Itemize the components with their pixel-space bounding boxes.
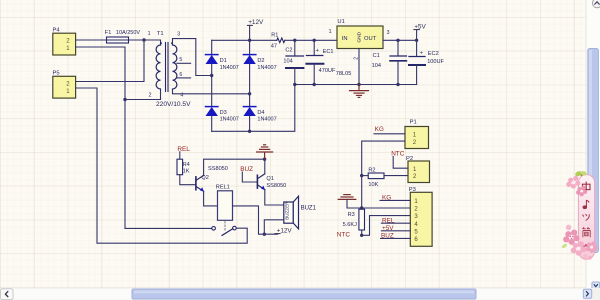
svg-text:REL1: REL1 xyxy=(216,185,230,191)
junction C2 top xyxy=(293,39,296,42)
svg-text:D1: D1 xyxy=(220,58,227,64)
svg-text:10K: 10K xyxy=(368,182,378,188)
svg-text:1: 1 xyxy=(329,29,332,35)
junction NTC node xyxy=(360,234,363,237)
wire D4 anode to bottom rail xyxy=(249,116,251,131)
ground symbol under U1 xyxy=(350,85,369,98)
connector P5 xyxy=(53,71,76,99)
flower cluster bottom xyxy=(561,225,598,260)
svg-text:T1: T1 xyxy=(157,31,164,37)
junction AC node left xyxy=(210,74,213,77)
wire U1 GND stem xyxy=(358,49,360,85)
svg-text:2: 2 xyxy=(149,93,152,99)
diode D3 1N4007 xyxy=(206,107,239,123)
wire relay coil right to +12V rail xyxy=(233,206,278,234)
connector P2 xyxy=(406,156,430,183)
wire T1 pin5 stub xyxy=(177,62,191,64)
wire BUZ label to Q1 base xyxy=(242,172,256,182)
wire Q1 emitter to buzzer top terminal xyxy=(265,190,284,205)
wire P1 pin2 to sense trunk xyxy=(362,141,405,209)
svg-text:100UF: 100UF xyxy=(427,59,444,65)
junction bridge bottom xyxy=(248,130,251,133)
svg-text:Q1: Q1 xyxy=(266,176,273,182)
transistor Q1 SS8050 xyxy=(257,174,286,190)
wire REL label to R4 xyxy=(179,152,181,159)
wire NTC node to P3 pin3 xyxy=(362,216,411,236)
wire D2 anode to D4 cathode xyxy=(249,64,251,107)
wire +5V to P3 pin5 xyxy=(381,230,410,232)
svg-text:R3: R3 xyxy=(348,212,355,218)
svg-text:1N4007: 1N4007 xyxy=(220,65,239,71)
wire KG to P3 pin1 xyxy=(380,199,410,201)
regulator U1 78L05 xyxy=(329,19,390,77)
switch contact left xyxy=(212,227,216,231)
wire Q2 emitter to relay coil xyxy=(204,191,218,206)
svg-text:R4: R4 xyxy=(183,162,190,168)
svg-text:SS8050: SS8050 xyxy=(266,183,286,189)
svg-text:Q2: Q2 xyxy=(201,175,208,181)
svg-text:47: 47 xyxy=(271,44,277,50)
resistor R1 xyxy=(271,32,285,49)
flower cluster top xyxy=(566,176,587,197)
svg-text:BUZ1: BUZ1 xyxy=(301,205,317,211)
svg-text:R2: R2 xyxy=(368,167,375,173)
diode D4 1N4007 xyxy=(243,107,276,123)
svg-text:D4: D4 xyxy=(257,110,264,116)
junction R2 tap xyxy=(360,174,363,177)
junction T1 pin2 branch xyxy=(123,98,126,101)
svg-text:IN: IN xyxy=(342,36,348,42)
svg-text:10A/250V: 10A/250V xyxy=(116,30,140,36)
butterfly decoration xyxy=(574,168,588,180)
transistor Q2 SS8050 xyxy=(196,166,228,192)
svg-text:1N4007: 1N4007 xyxy=(257,117,276,123)
wire D1 anode to D3 cathode xyxy=(211,64,213,107)
relay actuator dotted link xyxy=(224,221,226,231)
capacitor C2 xyxy=(283,40,303,84)
diode D2 1N4007 xyxy=(243,55,276,71)
svg-text:R1: R1 xyxy=(271,32,278,38)
connector P3 xyxy=(409,187,432,246)
wire ground to P3 pin2 xyxy=(347,199,410,208)
transformer T1 xyxy=(148,31,191,108)
wire T1 pin3 to bridge node xyxy=(173,39,212,76)
fuse F1 xyxy=(105,30,141,43)
svg-text:+12V: +12V xyxy=(248,19,264,26)
svg-text:P2: P2 xyxy=(406,156,413,162)
svg-text:+: + xyxy=(420,50,424,56)
svg-text:F1: F1 xyxy=(105,30,112,36)
wire bridge bottom rail up to ground rail xyxy=(212,85,295,132)
wire D1 column top xyxy=(211,40,213,54)
wire T1 pin6 stub xyxy=(177,77,191,79)
svg-text:KG: KG xyxy=(375,126,384,133)
svg-text:C1: C1 xyxy=(373,53,380,59)
svg-text:NTC: NTC xyxy=(337,232,351,239)
resistor R4 1K xyxy=(177,159,190,175)
svg-text:P1: P1 xyxy=(410,119,417,125)
svg-text:SS8050: SS8050 xyxy=(208,166,228,172)
svg-text:EC1: EC1 xyxy=(323,49,334,55)
svg-text:3: 3 xyxy=(177,31,180,37)
junction EC1 bottom xyxy=(313,83,316,86)
junction ground tap on trunk xyxy=(360,206,363,209)
vertical scrollbar down button xyxy=(592,282,600,289)
svg-text:P3: P3 xyxy=(409,187,416,193)
diode D1 1N4007 xyxy=(206,55,239,71)
svg-text:104: 104 xyxy=(372,63,381,69)
svg-text:EC2: EC2 xyxy=(428,51,439,57)
capacitor EC1 470UF xyxy=(306,40,336,84)
buzzer BUZ1 xyxy=(284,196,317,229)
junction AC node right xyxy=(248,92,251,95)
junction C1 top xyxy=(396,39,399,42)
wire R1 to U1 pin1 xyxy=(285,39,337,41)
svg-text:5.6KJ: 5.6KJ xyxy=(343,222,358,228)
svg-text:1N4007: 1N4007 xyxy=(257,65,276,71)
junction EC1 top xyxy=(313,39,316,42)
wire P5 pin1 down along bottom to switch right contact xyxy=(76,88,248,243)
wire NTC to P2 pin1 xyxy=(393,156,408,168)
svg-text:6: 6 xyxy=(179,72,182,78)
svg-text:470UF: 470UF xyxy=(319,68,336,74)
svg-text:GND: GND xyxy=(357,31,363,42)
resistor R3 5.6K xyxy=(343,209,365,230)
wire KG to P1 pin1 xyxy=(374,133,405,135)
svg-text:D3: D3 xyxy=(220,110,227,116)
svg-text:1N4007: 1N4007 xyxy=(220,117,239,123)
wire D3 anode to bottom rail xyxy=(211,116,213,131)
junction ground rail xyxy=(263,158,266,161)
junction EC2 top / +5V stem xyxy=(415,39,418,42)
IME toolbar banner xyxy=(578,175,594,260)
svg-text:U1: U1 xyxy=(337,19,344,25)
node +12V stem / D2 column top xyxy=(249,25,251,54)
wire R3 bottom to NTC node xyxy=(361,230,363,235)
connector P1 xyxy=(405,119,429,148)
wire ground rail xyxy=(295,84,417,86)
wire U1 pin3 to +5V node xyxy=(383,39,417,41)
svg-text:78L05: 78L05 xyxy=(336,71,352,77)
power port +5V xyxy=(414,23,427,40)
horizontal scrollbar thumb xyxy=(132,289,476,299)
horizontal scrollbar left button xyxy=(1,289,14,300)
vertical scrollbar track xyxy=(586,0,600,289)
svg-text:1K: 1K xyxy=(183,169,190,175)
wire buzzer bottom terminal to +12V wire xyxy=(264,220,284,234)
switch contact right xyxy=(233,226,237,230)
ground symbol at P3 xyxy=(338,195,356,200)
horizontal scrollbar right button xyxy=(583,289,591,298)
connector P4 xyxy=(53,28,76,55)
round scroll-top button xyxy=(592,0,600,8)
wire P4 pin1 down-left rail to switch left contact xyxy=(76,47,212,228)
svg-text:P5: P5 xyxy=(53,71,60,77)
svg-text:BUZZER: BUZZER xyxy=(285,201,290,220)
wire REL to P3 pin4 xyxy=(381,222,410,224)
svg-text:D2: D2 xyxy=(257,58,264,64)
junction C2 bottom xyxy=(293,83,296,86)
resistor R2 10K xyxy=(362,167,408,187)
svg-text:104: 104 xyxy=(283,59,292,65)
svg-text:OUT: OUT xyxy=(364,36,377,42)
wire T1 pin4 to bridge node xyxy=(173,89,250,94)
capacitor EC2 100UF xyxy=(409,40,445,84)
wire P4 pin2 to fuse to T1 pin1 xyxy=(76,40,161,45)
wire to T1 pin2 xyxy=(125,89,161,100)
horizontal scrollbar strip xyxy=(0,288,600,300)
svg-text:5: 5 xyxy=(179,57,182,63)
svg-text:1: 1 xyxy=(148,31,151,37)
svg-text:220V/10.5V: 220V/10.5V xyxy=(156,101,191,108)
wire R4 to Q2 base xyxy=(180,175,196,185)
relay REL1 coil xyxy=(216,185,233,221)
wire Q1 collector to ground junction xyxy=(264,159,266,174)
svg-text:P4: P4 xyxy=(53,28,61,34)
junction +12V wire xyxy=(263,233,266,236)
power port +12V bottom xyxy=(275,228,293,235)
wire BUZ to P3 pin6 xyxy=(381,237,411,239)
vertical scrollbar thumb xyxy=(588,49,599,253)
svg-text:+: + xyxy=(316,48,320,54)
svg-text:3: 3 xyxy=(387,30,390,36)
junction fuse output xyxy=(142,38,145,41)
wire fuse junction down to P5 pin2 xyxy=(76,40,144,82)
ground symbol above rail xyxy=(257,145,273,159)
svg-text:C2: C2 xyxy=(285,47,292,53)
capacitor C1 104 xyxy=(372,40,407,84)
power port +12V top xyxy=(247,19,264,26)
switch lever xyxy=(222,229,233,236)
+12V power rail xyxy=(212,39,277,41)
wire Q2 collector to ground rail xyxy=(204,159,265,175)
junction C1 bottom xyxy=(396,83,399,86)
